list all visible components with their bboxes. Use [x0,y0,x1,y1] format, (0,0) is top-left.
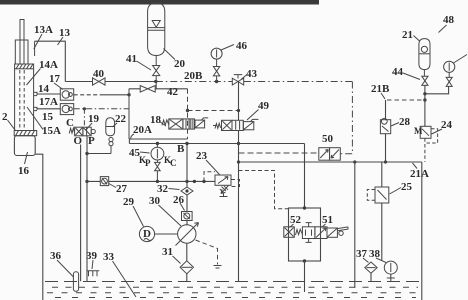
relief valve 23 [215,175,231,197]
svg-text:15: 15 [42,111,54,123]
pressure valve 28 [380,118,390,133]
svg-text:32: 32 [157,183,169,195]
svg-text:P: P [88,135,95,147]
check valve 17A [60,104,73,115]
wire: 14 line to box 20A [74,94,100,96]
svg-text:48: 48 [443,14,455,26]
pilot dashes around 23 [204,172,215,182]
filter 37 [365,262,377,273]
svg-text:41: 41 [126,53,137,65]
svg-text:52: 52 [290,214,302,226]
pilot dash-dot line 20B to valve 43 [156,81,233,83]
base cylinder 16 [14,136,35,156]
port stub 15 [34,107,37,110]
cylinder stage 2 tube [15,40,28,64]
pump vertical [186,144,188,226]
svg-text:15A: 15A [42,125,61,137]
outer tube [15,69,34,131]
svg-text:13A: 13A [34,24,53,36]
svg-text:16: 16 [18,165,30,177]
wire: line 13 from cylinder top [35,41,66,81]
pilot dash-dot from 43 down to 50 [340,82,352,154]
svg-text:31: 31 [162,246,173,258]
B-line y143.5 [129,143,304,145]
svg-text:19: 19 [88,113,100,125]
svg-text:B: B [177,143,185,155]
svg-text:13: 13 [59,27,71,39]
gauge 47 [444,61,455,72]
svg-text:27: 27 [116,183,128,195]
valve 50 [319,148,341,161]
svg-text:37: 37 [356,248,368,260]
valve 18 [162,118,208,129]
filter 31 [180,261,193,274]
wire: pilot drop to valve 19 [83,109,85,127]
svg-text:49: 49 [258,100,270,112]
svg-text:C: C [170,158,177,168]
svg-text:43: 43 [246,68,258,80]
svg-text:26: 26 [173,194,185,206]
svg-text:39: 39 [86,250,98,262]
motor 29 [139,226,154,241]
wire: port 15 line [37,108,60,110]
check valve 27 [100,177,108,186]
wire: port 14 line [37,93,60,95]
accumulator 22 [106,118,115,154]
valve 49 drop from 43 line [238,82,240,282]
branch y150.5 dashed to valve 50 [239,152,319,154]
outlet 39 [87,271,99,277]
accumulator 21 [419,39,430,77]
node 13A stub [34,41,36,56]
svg-text:2: 2 [2,111,8,123]
valve under gauge 47 [446,77,452,86]
svg-text:25: 25 [401,181,413,193]
svg-text:M: M [414,126,423,136]
unloader block 51/52 [289,208,321,261]
main line y81.5 (13C) [65,81,156,83]
wire: 22 to P line [87,153,111,155]
wire: drop to tank at 354.8 [354,162,356,288]
diamond 32 [181,187,193,195]
svg-text:20B: 20B [184,70,203,82]
dashed pilot left to 21B line [386,99,422,101]
cylinder rod (stage 1) [20,20,24,65]
top scan bar [0,0,319,5]
pilot dash line inside box to 49 drop [188,110,239,112]
svg-text:18: 18 [150,114,162,126]
svg-text:23: 23 [196,150,208,162]
accumulator 20 [148,3,165,66]
valve 44 [422,76,428,85]
svg-text:50: 50 [322,133,334,145]
valve 52 (x-box) [284,227,303,238]
branch y160.5 to right [239,161,422,163]
svg-text:40: 40 [93,68,105,80]
box 20A [129,89,188,139]
svg-text:38: 38 [369,248,381,260]
svg-text:36: 36 [50,250,62,262]
valve under gauge 45 [155,162,161,170]
valve 43 [232,78,243,85]
pump case drain (dashed) [196,240,218,265]
svg-text:C: C [66,117,74,129]
svg-text:28: 28 [399,116,411,128]
port stub 14 [34,92,37,95]
valve 40 [93,78,106,85]
svg-text:17A: 17A [39,96,58,108]
valve 25 [367,187,389,203]
gauge 46 [211,48,222,59]
svg-text:14A: 14A [39,59,58,71]
strainer 36 [73,272,78,292]
fluid dashes [47,287,418,297]
check valve 26 [182,212,193,221]
svg-text:14: 14 [38,83,50,95]
valve 51 body [302,223,348,243]
wire: O drop to tank [80,145,82,282]
svg-text:42: 42 [167,86,179,98]
pump 30 [178,225,196,243]
wire: P drop to tank [86,136,88,281]
svg-text:44: 44 [392,66,404,78]
svg-text:21B: 21B [371,83,390,95]
pump 38 [384,261,397,274]
svg-text:P: P [145,158,151,168]
svg-text:20: 20 [174,58,186,70]
wire: base 16 outlet to tank drop [35,154,43,300]
svg-text:24: 24 [441,119,453,131]
valve under gauge 46 [216,59,218,66]
check valve 17 [60,89,73,100]
valve 49 [213,119,258,130]
wire: 15 pilot dash-dot to right [74,108,129,110]
motor-pump shaft [155,233,178,235]
tank top dashed line [45,281,421,283]
valve 19 [69,127,95,136]
gauge 45 [156,144,158,148]
valve 24 [420,126,437,162]
drop to tank right wall [421,162,423,300]
svg-text:21: 21 [402,29,413,41]
svg-text:46: 46 [236,40,248,52]
svg-text:51: 51 [322,214,333,226]
valve 41 (vertical) [153,66,160,76]
svg-text:21A: 21A [410,168,429,180]
line 42 with bowtie [129,88,188,90]
svg-text:O: O [74,135,83,147]
wires 44/47 to junction [425,85,449,93]
lower gland (hatched band) [14,131,37,136]
pressure line y181.4 [87,180,215,182]
gland 14A (hatched band) [15,64,34,69]
